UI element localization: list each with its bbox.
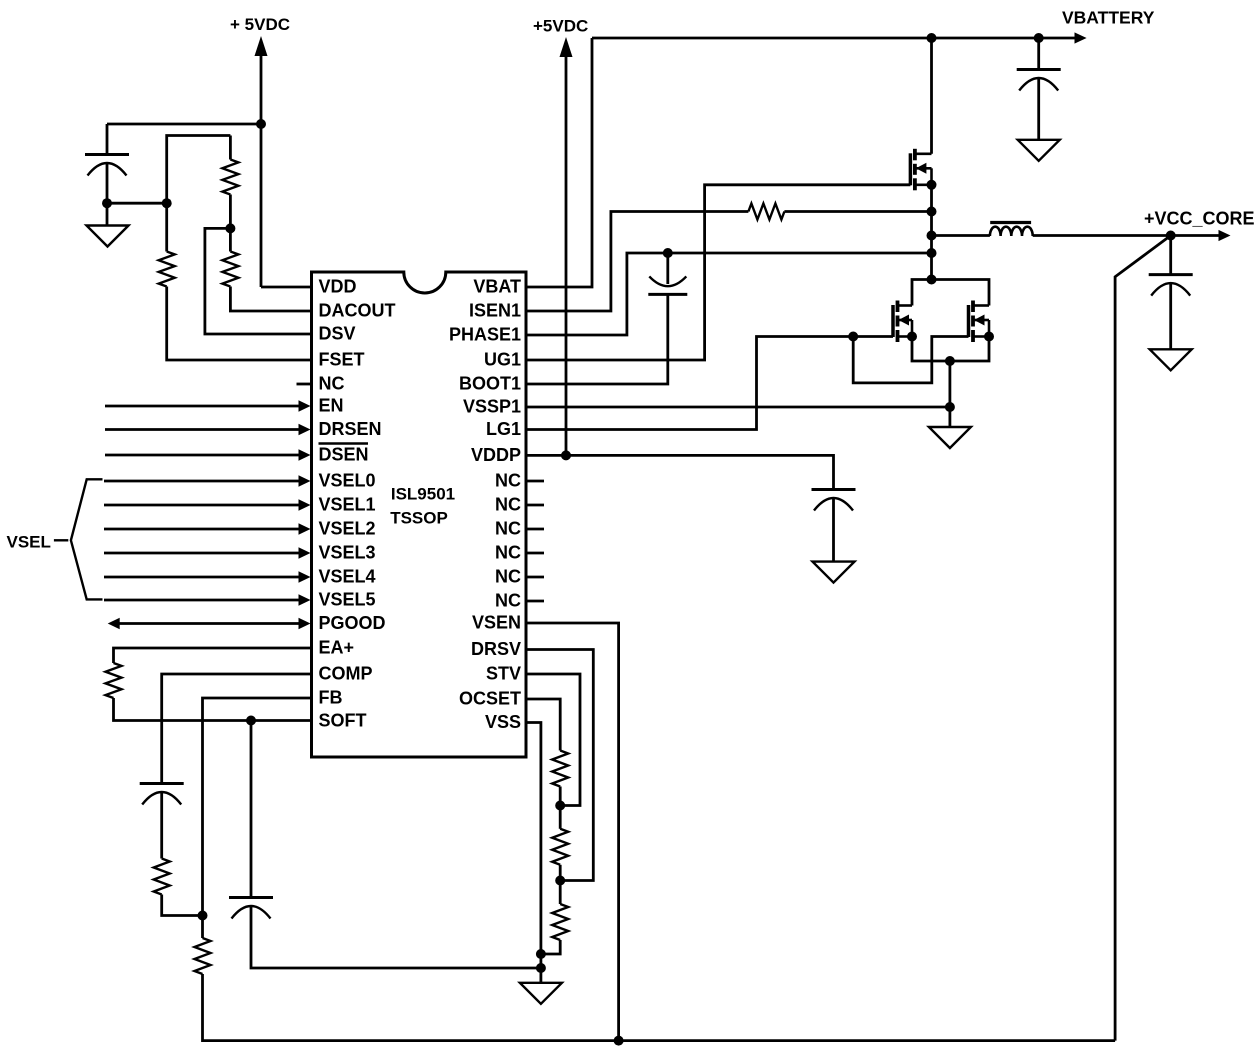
ground below C2 bbox=[1018, 140, 1060, 161]
wire VBATTERY rail bbox=[592, 32, 1087, 43]
pin DRSEN label bbox=[319, 419, 382, 439]
wire VSSP1 pin to power ground bbox=[526, 406, 950, 409]
pin VSEL3 label bbox=[319, 543, 376, 563]
wire R6 to FB node bbox=[162, 895, 203, 916]
wire ISEN1 pin to sense resistor bbox=[526, 212, 748, 312]
svg-text:+ 5VDC: + 5VDC bbox=[230, 15, 290, 34]
junction VDDP node bbox=[561, 450, 571, 460]
transistor Q2 (low-side MOSFET A) bbox=[893, 301, 912, 343]
wire R5 to SOFT line bbox=[114, 698, 312, 721]
svg-text:+5VDC: +5VDC bbox=[533, 17, 588, 36]
pin BOOT1 label (right side row 5) bbox=[459, 374, 521, 394]
transistor Q1 (high-side MOSFET) bbox=[910, 149, 931, 191]
svg-text:DACOUT: DACOUT bbox=[319, 301, 396, 321]
pin DACOUT label bbox=[319, 301, 396, 321]
transistor Q3 (low-side MOSFET B) bbox=[969, 301, 990, 343]
svg-text:UG1: UG1 bbox=[484, 350, 521, 370]
capacitor C6 (COMP compensation) bbox=[140, 784, 184, 805]
input arrow VSEL1 bbox=[104, 499, 311, 511]
resistor R9 (divider middle) bbox=[552, 829, 568, 865]
svg-text:SOFT: SOFT bbox=[319, 711, 367, 731]
pin VSEN label (right side row 15) bbox=[472, 613, 521, 633]
wire SOFT node to C7 bbox=[250, 721, 253, 898]
pin NC label (right side row 11) bbox=[495, 519, 521, 539]
junction R1/R2 divider tap bbox=[225, 223, 235, 233]
net label +5VDC (middle) bbox=[533, 17, 588, 36]
wire R8 to R9 bbox=[559, 787, 562, 829]
svg-text:VSEL4: VSEL4 bbox=[319, 567, 376, 587]
IC U1 ISL9501 TSSOP package body bbox=[312, 272, 527, 757]
net label VSEL bbox=[7, 533, 51, 552]
svg-text:VBAT: VBAT bbox=[473, 277, 521, 297]
wire R3 to FSET pin bbox=[167, 287, 312, 361]
pin NC label bbox=[319, 374, 345, 394]
pin FB label bbox=[319, 688, 343, 708]
capacitor C7 (soft-start) bbox=[229, 898, 273, 919]
wire FB pin down bbox=[203, 698, 312, 938]
ground below C4 bbox=[813, 562, 855, 583]
ground below VSS node bbox=[520, 983, 562, 1004]
pin NC right stub 3 bbox=[526, 528, 544, 531]
wire VDDP pin to C4 bbox=[526, 455, 834, 489]
wire C7 to VSS node bbox=[251, 907, 541, 969]
pin VBAT label (right side row 1) bbox=[473, 277, 521, 297]
junction C7/VSS ground node bbox=[536, 963, 546, 973]
junction sense line / phase node bbox=[927, 207, 937, 217]
wire R4 to phase node bbox=[784, 210, 931, 213]
net label VBATTERY bbox=[1062, 8, 1155, 28]
input arrow VSEL3 bbox=[104, 547, 311, 559]
svg-text:NC: NC bbox=[495, 471, 521, 491]
wire C1 top stub bbox=[106, 124, 109, 155]
svg-text:VDDP: VDDP bbox=[471, 445, 521, 465]
wire inductor to +VCC_CORE arrow bbox=[1033, 230, 1231, 241]
wire R7 to bottom feedback rail bbox=[203, 974, 1116, 1041]
wire VDD pin stub bbox=[261, 286, 312, 289]
pin VSEL5 label bbox=[319, 590, 376, 610]
+5VDC power arrow (middle) bbox=[560, 37, 573, 57]
pin VSEL0 label bbox=[319, 471, 376, 491]
wire +5VDC rail to C1 bbox=[107, 123, 261, 126]
resistor R5 (EA+ feedback) bbox=[106, 663, 122, 698]
wire STV pin to divider bbox=[526, 674, 580, 806]
wire Q1 drain from battery rail bbox=[930, 38, 933, 154]
VSEL bus brace bbox=[71, 479, 103, 599]
svg-text:ISEN1: ISEN1 bbox=[469, 301, 521, 321]
svg-text:DRSEN: DRSEN bbox=[319, 419, 382, 439]
svg-text:VSEL0: VSEL0 bbox=[319, 471, 376, 491]
wire C2 top stub bbox=[1037, 38, 1040, 70]
svg-text:PHASE1: PHASE1 bbox=[449, 325, 521, 345]
svg-text:NC: NC bbox=[495, 543, 521, 563]
pin STV label (right side row 17) bbox=[486, 664, 521, 684]
pin ISEN1 label (right side row 2) bbox=[469, 301, 521, 321]
wire DRSV pin to divider bbox=[526, 650, 593, 881]
wire VSEN pin down to feedback rail bbox=[526, 623, 619, 1041]
svg-text:VSEL5: VSEL5 bbox=[319, 590, 376, 610]
pin NC label (right side row 14) bbox=[495, 591, 521, 611]
pin NC right stub 1 bbox=[526, 480, 544, 483]
svg-text:PGOOD: PGOOD bbox=[319, 613, 386, 633]
junction phase node / FET pair bar bbox=[927, 275, 937, 285]
pin VDD label bbox=[319, 277, 357, 297]
junction battery rail / Q1 drain bbox=[927, 33, 937, 43]
junction Q1 source bbox=[927, 180, 937, 190]
capacitor C1 (5V decoupling) bbox=[85, 155, 129, 176]
input arrow DRSEN bbox=[105, 424, 311, 436]
pin SOFT label bbox=[319, 711, 367, 731]
pin VDDP label (right side row 8) bbox=[471, 445, 521, 465]
junction R10/VSS bbox=[536, 949, 546, 959]
svg-text:NC: NC bbox=[495, 591, 521, 611]
svg-text:VSS: VSS bbox=[485, 712, 521, 732]
junction inductor line / phase node bbox=[927, 231, 937, 241]
junction VSEN / feedback rail bbox=[614, 1036, 624, 1046]
wire source tie bar bbox=[912, 337, 989, 362]
capacitor C4 (VDDP decoupling) bbox=[812, 490, 856, 511]
wire FSET branch upper segment bbox=[167, 136, 231, 252]
svg-text:NC: NC bbox=[495, 495, 521, 515]
pin VSS label (right side row 19) bbox=[485, 712, 521, 732]
svg-text:FSET: FSET bbox=[319, 350, 365, 370]
wire VSS pin down to ground bbox=[526, 723, 541, 983]
bidirectional arrow PGOOD bbox=[108, 618, 311, 630]
svg-text:VSEL3: VSEL3 bbox=[319, 543, 376, 563]
resistor R3 (FSET) bbox=[159, 252, 175, 287]
svg-text:LG1: LG1 bbox=[486, 419, 521, 439]
wire R1 to R2 bbox=[229, 195, 232, 252]
wire +5VDC down to VDDP bbox=[565, 53, 568, 455]
junction Q2 source bbox=[907, 332, 917, 342]
junction SOFT node bbox=[246, 716, 256, 726]
junction Q3 source bbox=[984, 332, 994, 342]
svg-text:DRSV: DRSV bbox=[471, 639, 521, 659]
wire +5VDC down to VDD pin bbox=[260, 52, 263, 287]
pin VSSP1 label (right side row 6) bbox=[463, 397, 521, 417]
pin NC right stub 6 bbox=[526, 600, 544, 603]
wire OCSET pin to R8 bbox=[526, 699, 560, 751]
svg-text:TSSOP: TSSOP bbox=[390, 509, 448, 528]
capacitor C2 (battery bulk) bbox=[1017, 70, 1061, 91]
DSEN active-low overline bbox=[319, 442, 369, 445]
resistor R6 (COMP) bbox=[154, 859, 170, 895]
wire phase node vertical bbox=[930, 185, 933, 280]
ground below C1 bbox=[87, 226, 129, 247]
pin NC right stub 2 bbox=[526, 504, 544, 507]
svg-text:FB: FB bbox=[319, 688, 343, 708]
svg-text:VSEL: VSEL bbox=[7, 533, 51, 552]
pin PHASE1 label (right side row 3) bbox=[449, 325, 521, 345]
pin OCSET label (right side row 18) bbox=[459, 689, 521, 709]
ground power stage bbox=[929, 427, 971, 448]
wire UG1 pin to Q1 gate bbox=[526, 185, 910, 360]
pin EA+ label bbox=[319, 638, 355, 658]
inductor L1 bbox=[990, 223, 1033, 237]
input arrow DSEN bbox=[105, 449, 311, 461]
pin VSEL1 label bbox=[319, 495, 376, 515]
wire sources to power ground bbox=[949, 361, 952, 427]
wire C3 top stub bbox=[666, 253, 669, 284]
wire low-side drain bar bbox=[912, 280, 989, 306]
junction FSET divider node bbox=[162, 198, 172, 208]
junction source tie / ground drop bbox=[945, 356, 955, 366]
net label + 5VDC (left) bbox=[230, 15, 290, 34]
wire DACOUT branch top bbox=[229, 136, 232, 160]
svg-text:VBATTERY: VBATTERY bbox=[1062, 8, 1155, 28]
wire gate link to Q3 bbox=[853, 337, 968, 383]
svg-text:VSEL1: VSEL1 bbox=[319, 495, 376, 515]
svg-text:VSSP1: VSSP1 bbox=[463, 397, 521, 417]
svg-text:BOOT1: BOOT1 bbox=[459, 374, 521, 394]
wire EA+ pin to R5 bbox=[114, 648, 312, 663]
svg-text:COMP: COMP bbox=[319, 664, 373, 684]
input arrow VSEL2 bbox=[104, 523, 311, 535]
input arrow VSEL4 bbox=[104, 571, 311, 583]
input arrow VSEL0 bbox=[104, 475, 311, 487]
wire C6 to R6 bbox=[160, 793, 163, 859]
pin PGOOD label bbox=[319, 613, 386, 633]
pin NC label (right side row 10) bbox=[495, 495, 521, 515]
input arrow VSEL5 bbox=[104, 594, 311, 606]
svg-text:NC: NC bbox=[319, 374, 345, 394]
wire C3 to BOOT1 pin bbox=[526, 294, 668, 384]
svg-text:OCSET: OCSET bbox=[459, 689, 521, 709]
junction PHASE1 / phase node bbox=[927, 248, 937, 258]
wire C1 node to FSET branch bbox=[107, 202, 167, 205]
VSEL label dash bbox=[54, 539, 68, 541]
pin COMP label bbox=[319, 664, 373, 684]
capacitor C3 (bootstrap) bbox=[648, 276, 687, 294]
pin NC right stub 4 bbox=[526, 552, 544, 555]
svg-text:DSV: DSV bbox=[319, 324, 356, 344]
pin UG1 label (right side row 4) bbox=[484, 350, 521, 370]
resistor R10 (divider bottom) bbox=[552, 904, 568, 940]
pin DRSV label (right side row 16) bbox=[471, 639, 521, 659]
ground below C5 bbox=[1150, 349, 1192, 370]
pin VSEL2 label bbox=[319, 519, 376, 539]
junction COMP/FB node bbox=[198, 911, 208, 921]
wire divider tap to DSV pin bbox=[205, 228, 312, 334]
+5VDC power arrow (left) bbox=[255, 36, 268, 56]
junction DRSV tap bbox=[555, 876, 565, 886]
wire LG1 pin to gates bbox=[526, 337, 893, 430]
junction VSSP1 / power ground bbox=[945, 402, 955, 412]
pin FSET label bbox=[319, 350, 365, 370]
pin NC label (right side row 13) bbox=[495, 567, 521, 587]
svg-text:NC: NC bbox=[495, 519, 521, 539]
pin DSEN label bbox=[319, 445, 369, 465]
svg-text:ISL9501: ISL9501 bbox=[391, 485, 455, 504]
resistor R2 (DACOUT divider bottom) bbox=[222, 252, 238, 287]
wire C2 to ground bbox=[1037, 79, 1040, 140]
wire R2 to DACOUT pin bbox=[230, 287, 311, 312]
wire R9 to R10 bbox=[559, 865, 562, 904]
input arrow EN bbox=[105, 400, 311, 412]
wire VBAT pin up to battery rail bbox=[526, 38, 592, 287]
junction +VCC_CORE output node bbox=[1166, 231, 1176, 241]
svg-text:VSEL2: VSEL2 bbox=[319, 519, 376, 539]
wire PHASE1 pin to phase node bbox=[526, 253, 932, 335]
junction LG1 gate node bbox=[848, 332, 858, 342]
resistor R8 (OCSET divider) bbox=[552, 751, 568, 787]
wire C4 to ground bbox=[832, 499, 835, 562]
U1 part number label ISL9501 bbox=[391, 485, 455, 504]
net label +VCC_CORE bbox=[1144, 209, 1255, 229]
wire C5 to ground bbox=[1169, 284, 1172, 350]
pin VSEL4 label bbox=[319, 567, 376, 587]
svg-text:DSEN: DSEN bbox=[319, 445, 369, 465]
junction C1 bottom node bbox=[102, 198, 112, 208]
junction battery rail / C2 bbox=[1034, 33, 1044, 43]
wire phase node to inductor bbox=[932, 234, 990, 237]
pin DSV label bbox=[319, 324, 356, 344]
resistor R4 (current sense) bbox=[748, 204, 784, 220]
resistor R1 (DACOUT divider top) bbox=[222, 160, 238, 195]
wire VCC_CORE feedback diagonal bbox=[1115, 236, 1171, 1041]
pin EN label bbox=[319, 396, 344, 416]
svg-text:VDD: VDD bbox=[319, 277, 357, 297]
svg-text:STV: STV bbox=[486, 664, 521, 684]
wire C1 bottom stub to ground bbox=[106, 164, 109, 226]
junction bootstrap cap tap bbox=[663, 248, 673, 258]
pin LG1 label (right side row 7) bbox=[486, 419, 521, 439]
pin NC right stub 5 bbox=[526, 576, 544, 579]
wire R10 to VSS node bbox=[541, 940, 560, 954]
U1 package label TSSOP bbox=[390, 509, 448, 528]
svg-text:EA+: EA+ bbox=[319, 638, 355, 658]
resistor R7 (FB) bbox=[195, 938, 211, 974]
wire C5 top stub bbox=[1169, 236, 1172, 275]
pin NC label (right side row 9) bbox=[495, 471, 521, 491]
wire COMP pin to C6 bbox=[162, 674, 312, 784]
svg-text:VSEN: VSEN bbox=[472, 613, 521, 633]
svg-text:NC: NC bbox=[495, 567, 521, 587]
capacitor C5 (output filter) bbox=[1149, 275, 1193, 296]
junction STV tap bbox=[555, 801, 565, 811]
pin NC label (right side row 12) bbox=[495, 543, 521, 563]
svg-text:EN: EN bbox=[319, 396, 344, 416]
pin NC left stub bbox=[297, 383, 312, 386]
svg-text:+VCC_CORE: +VCC_CORE bbox=[1144, 209, 1255, 229]
junction +5VDC / C1 branch bbox=[256, 119, 266, 129]
